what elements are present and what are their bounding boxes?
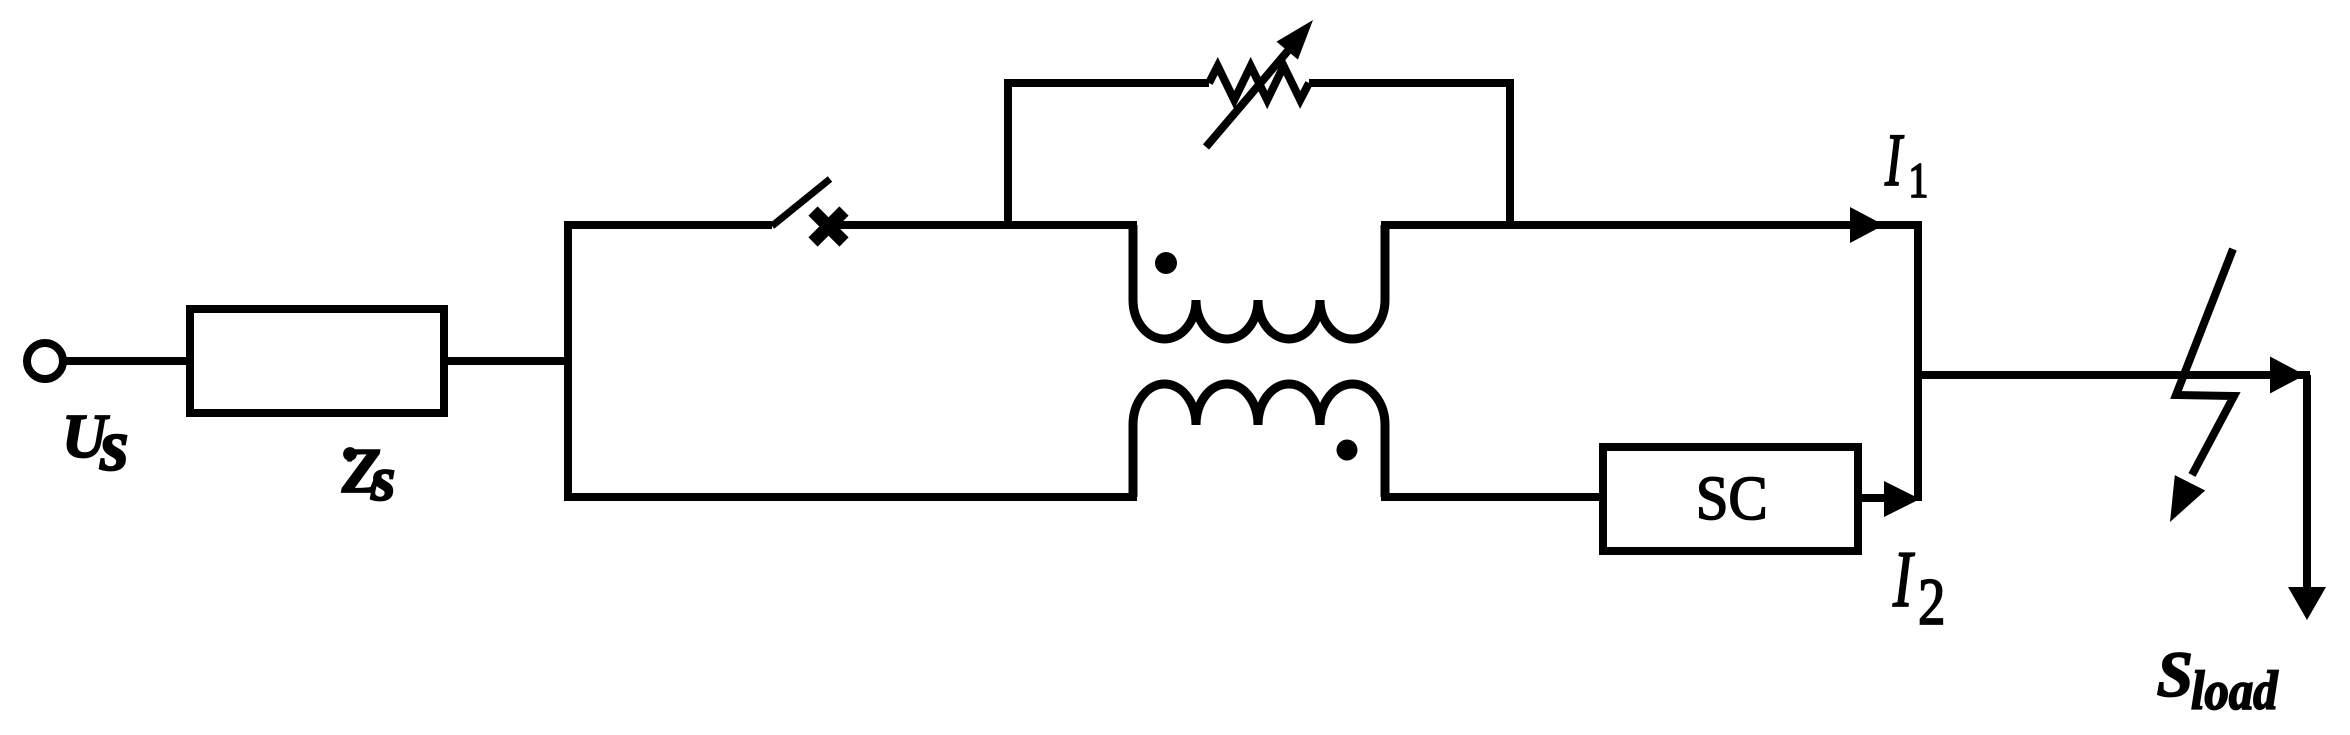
wire: output to load: [1918, 371, 2310, 379]
svg-text:SC: SC: [1696, 464, 1768, 533]
wire: load drop vertical: [2303, 375, 2311, 587]
fault bolt stroke: [2176, 249, 2234, 475]
svg-text:I: I: [1892, 535, 1915, 625]
svg-text:1: 1: [1908, 153, 1928, 208]
variable resistor zigzag: [1209, 66, 1309, 100]
svg-text:2: 2: [1918, 565, 1945, 639]
wire: bottom rail: [564, 493, 1137, 501]
wire: bypass loop right vertical: [1506, 83, 1514, 225]
wire: bypass loop top left segment: [1004, 79, 1209, 87]
SC compensator box: [1603, 447, 1858, 551]
wire: secondary to SC box: [1381, 493, 1607, 501]
wire: top rail from switch to transformer: [832, 221, 1137, 229]
wire: terminal to Zs: [64, 357, 190, 365]
variable resistor arrow shaft: [1206, 46, 1292, 147]
svg-text:S: S: [2157, 639, 2193, 711]
transformer primary winding: [1133, 225, 1385, 339]
svg-text:s: s: [370, 444, 396, 514]
arrowhead I1: [1850, 207, 1884, 243]
switch blade (open breaker): [772, 179, 830, 226]
terminal: source input: [27, 343, 63, 379]
label Zs dot (phasor): [344, 448, 356, 460]
svg-text:I: I: [1884, 118, 1904, 201]
transformer secondary winding: [1133, 384, 1385, 497]
resistor Zs (source impedance box): [190, 309, 444, 413]
arrowhead: output to load: [2270, 357, 2305, 394]
variable resistor arrowhead: [1277, 20, 1314, 60]
transformer secondary polarity dot: [1337, 440, 1358, 461]
svg-text:s: s: [99, 405, 129, 487]
transformer primary polarity dot: [1155, 252, 1177, 274]
wire: top rail left segment: [564, 221, 772, 229]
arrowhead I2: [1884, 481, 1920, 517]
wire: Zs to left junction node: [444, 357, 572, 365]
wire: top rail to output corner: [1381, 221, 1922, 229]
wire: left junction vertical: [564, 225, 572, 497]
arrowhead: load drop down: [2288, 587, 2326, 620]
wire: SC box to right junction: [1858, 494, 1890, 502]
wire: bypass loop left vertical: [1004, 83, 1012, 225]
switch X contact mark: [813, 211, 844, 242]
wire: bypass loop top right segment: [1309, 79, 1514, 87]
svg-text:load: load: [2191, 661, 2279, 721]
wire: right junction vertical: [1914, 225, 1922, 501]
fault bolt arrowhead: [2170, 475, 2205, 522]
